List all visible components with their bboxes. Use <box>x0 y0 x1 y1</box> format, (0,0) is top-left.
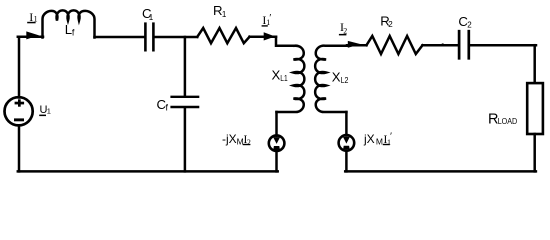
dependent source -jXM I2 circle <box>269 135 285 151</box>
svg-text:I: I <box>29 10 33 24</box>
inductor XL2 <box>315 46 347 112</box>
resistor R1 <box>197 28 249 43</box>
resistor label R2 <box>380 13 393 29</box>
current label I2 <box>339 20 347 35</box>
wire source to bottom rail <box>275 151 278 172</box>
svg-text:1: 1 <box>149 13 154 22</box>
svg-text:2: 2 <box>467 21 472 30</box>
current label I1 <box>27 10 37 24</box>
svg-text:-jX: -jX <box>222 132 237 146</box>
wire top-left vertical <box>18 37 21 98</box>
inductor label XL2 <box>332 70 349 86</box>
wire XL2 top to R2 <box>347 44 367 47</box>
dependent source label jXM I1' <box>363 132 392 147</box>
svg-text:L2: L2 <box>341 75 349 85</box>
wire right vertical upper <box>533 45 536 83</box>
wire C1 to R1 with node junction <box>155 36 198 39</box>
inductor Lf <box>43 10 95 37</box>
svg-text:2: 2 <box>247 138 251 147</box>
svg-text:2: 2 <box>388 20 393 29</box>
svg-text:jX: jX <box>363 132 375 146</box>
arrow I1' <box>264 32 276 40</box>
wire C2 to top-right corner <box>470 44 536 47</box>
capacitor label C2 <box>458 14 472 29</box>
wire Lf to C1 <box>95 36 145 39</box>
voltage source U1 circle <box>5 97 33 125</box>
inductor XL1 <box>277 46 305 112</box>
arrow I2 <box>348 41 361 48</box>
svg-text:X: X <box>272 68 281 83</box>
junction dot on right rail <box>441 43 444 46</box>
wire XL1 bottom to dependent source <box>275 112 278 136</box>
wire R1 to arrow <box>250 36 277 39</box>
capacitor C2 <box>459 31 469 58</box>
wire step down to XL1 <box>276 37 295 46</box>
inductor label XL1 <box>272 68 288 84</box>
wire source to bottom rail right <box>345 150 348 171</box>
svg-text:1: 1 <box>47 107 51 116</box>
resistor R2 <box>367 36 423 54</box>
capacitor label Cf <box>157 97 169 113</box>
wire source U1 bottom vertical <box>18 125 21 171</box>
svg-text:′: ′ <box>390 132 392 143</box>
svg-text:M: M <box>376 137 383 147</box>
dependent source -jXM I2 inner arrow <box>273 137 280 150</box>
wire Cf stub lower <box>184 108 187 171</box>
dependent source label -jXM I2 <box>222 132 251 147</box>
voltage source label U1 <box>39 104 51 116</box>
resistor RLOAD box <box>527 83 543 134</box>
load resistor label RLOAD <box>488 111 517 127</box>
capacitor label C1 <box>142 6 154 22</box>
arrow I1 <box>26 31 39 39</box>
capacitor C1 <box>145 24 153 51</box>
wire right vertical lower <box>533 134 536 171</box>
svg-text:1: 1 <box>222 10 227 19</box>
svg-text:′: ′ <box>269 13 271 24</box>
current label I1' <box>262 13 272 27</box>
wire XL2 bottom to dependent source <box>345 112 348 136</box>
dependent source jXM I1' inner arrow <box>343 137 350 150</box>
dependent source jXM I1' circle <box>339 135 355 151</box>
wire R2 to C2 <box>423 44 458 47</box>
svg-text:LOAD: LOAD <box>498 116 518 126</box>
wire top-left horizontal <box>18 36 43 39</box>
wire bottom rail left <box>18 170 278 173</box>
inductor label Lf <box>65 22 75 38</box>
svg-text:X: X <box>332 70 341 85</box>
capacitor Cf <box>172 97 199 107</box>
voltage source U1 minus sign <box>14 118 24 121</box>
voltage source U1 plus sign <box>15 99 25 106</box>
wire bottom rail right <box>345 170 536 173</box>
resistor label R1 <box>213 3 227 19</box>
svg-text:L1: L1 <box>280 73 288 83</box>
wire Cf stub upper <box>184 37 187 96</box>
